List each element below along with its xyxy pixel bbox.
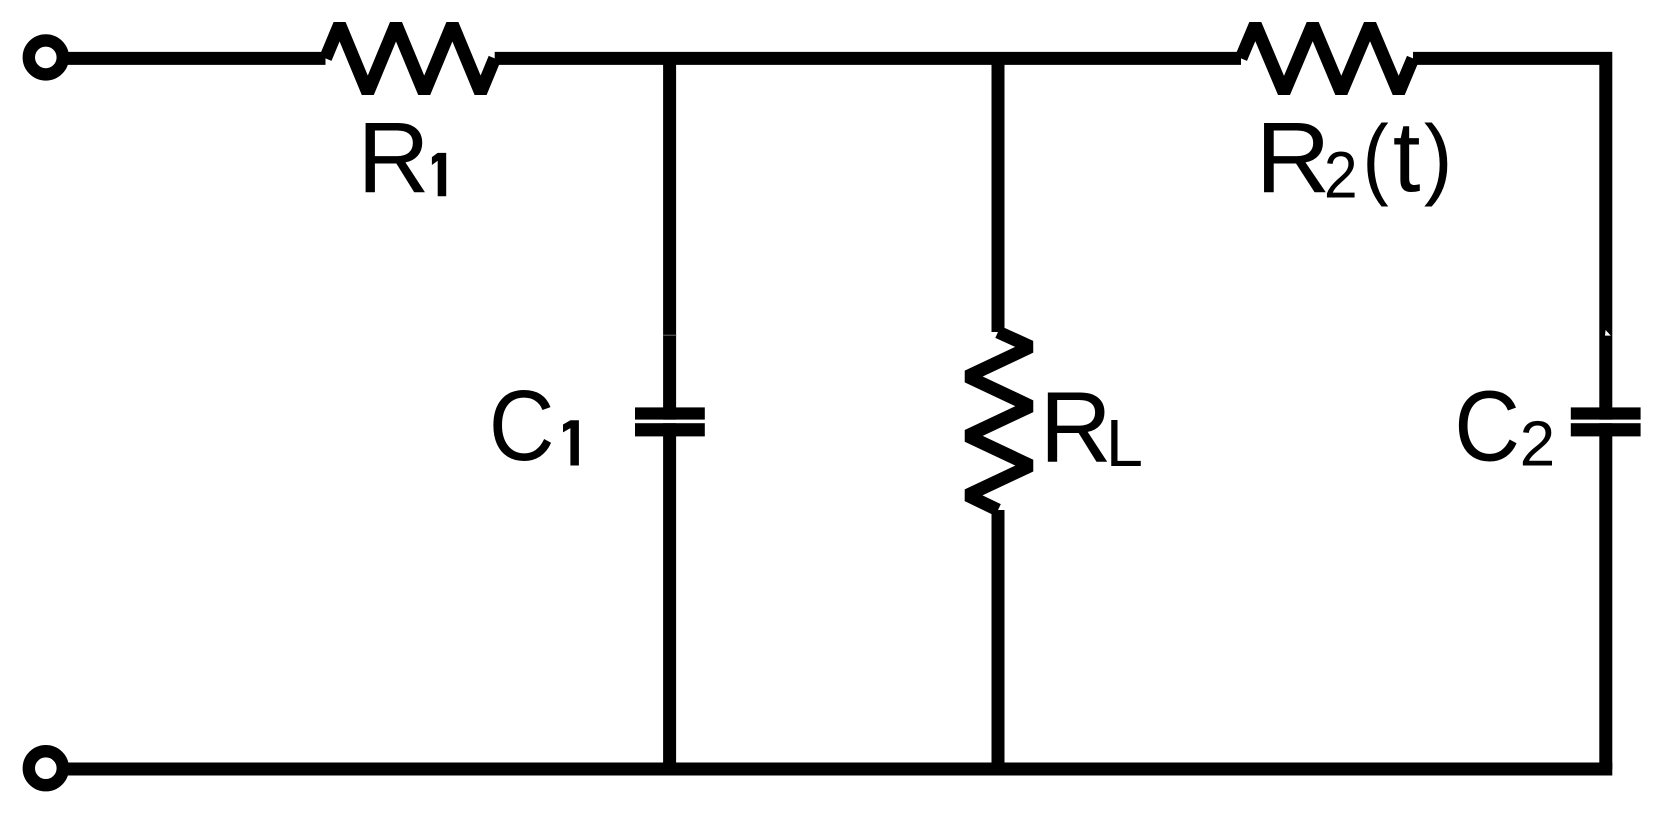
svg-text:C: C [1454,370,1520,482]
svg-text:2: 2 [1520,408,1556,480]
svg-text:C: C [489,370,555,482]
svg-text:R: R [1040,371,1112,483]
svg-text:t: t [1393,101,1421,213]
svg-text:R: R [357,102,429,214]
svg-text:): ) [1424,107,1453,208]
svg-text:(: ( [1362,106,1388,207]
svg-text:R: R [1256,102,1331,214]
svg-text:2: 2 [1324,139,1358,212]
svg-text:L: L [1106,406,1143,481]
